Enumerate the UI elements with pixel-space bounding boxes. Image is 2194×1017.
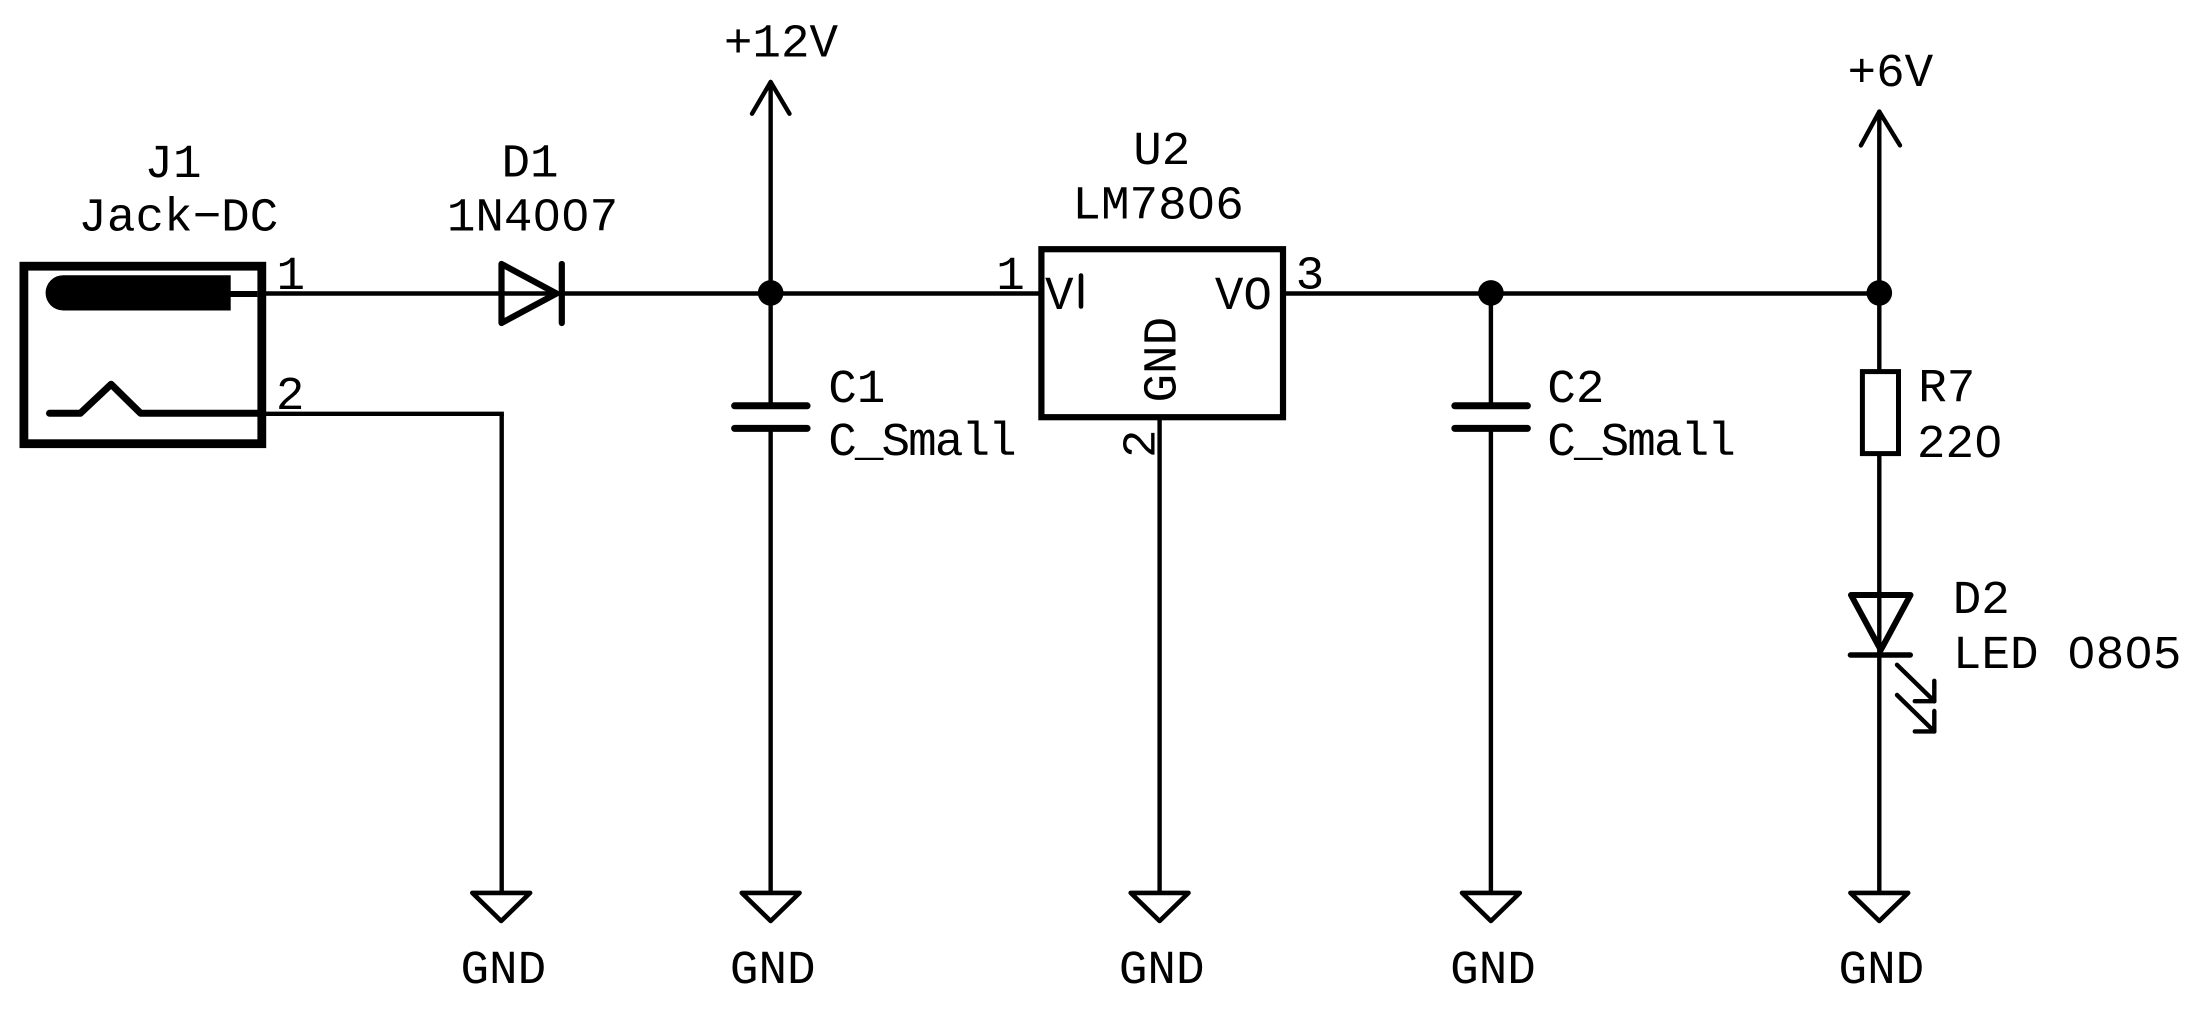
wire net VOUT: U2 VO to +6V node <box>1284 291 1879 295</box>
wire U2 GND pin to GND <box>1157 417 1161 893</box>
svg-text:VO: VO <box>1215 270 1272 324</box>
node junction at +12V/C1 <box>758 280 784 306</box>
svg-text:+6V: +6V <box>1848 47 1934 101</box>
LED D2 <box>1850 595 1910 655</box>
svg-text:C_Small: C_Small <box>828 416 1015 470</box>
svg-text:1N4007: 1N4007 <box>447 191 618 245</box>
wire +6V stem <box>1877 112 1881 294</box>
wire J1 pin2 horizontal <box>262 412 504 416</box>
capacitor C1 plates <box>735 406 808 429</box>
wire node to R7 <box>1877 294 1881 373</box>
svg-text:GND: GND <box>1839 944 1925 998</box>
ground symbol under U2 <box>1131 893 1189 921</box>
J1 center contact zigzag <box>50 384 258 413</box>
ground symbol under J1 pin2 <box>472 893 530 921</box>
svg-text:D1: D1 <box>501 138 558 192</box>
wire C2 top <box>1489 294 1493 407</box>
wire R7 to D2 to GND <box>1877 454 1881 893</box>
svg-text:J1: J1 <box>144 138 201 192</box>
svg-text:U2: U2 <box>1133 125 1190 179</box>
ground symbol under C2 <box>1462 893 1520 921</box>
svg-text:GND: GND <box>460 944 546 998</box>
wire C1 bottom to GND <box>768 428 772 893</box>
node junction at +6V/R7 <box>1867 280 1893 306</box>
svg-text:LM7806: LM7806 <box>1072 180 1243 234</box>
J1 barrel pin <box>46 275 231 310</box>
svg-text:2: 2 <box>1116 429 1170 458</box>
wire C2 bottom to GND <box>1489 428 1493 893</box>
ground symbol under C1 <box>742 893 800 921</box>
capacitor C2 plates <box>1455 406 1528 429</box>
wire C1 top <box>768 294 772 407</box>
wire +12V stem <box>768 82 772 294</box>
wire net VIN: J1 pin1 to U2 VI <box>262 291 1040 295</box>
wire J1 pin2 vertical to GND <box>500 414 504 893</box>
svg-text:C2: C2 <box>1547 363 1604 417</box>
svg-text:2: 2 <box>276 370 305 424</box>
diode D1 <box>502 264 562 323</box>
svg-text:Jack−DC: Jack−DC <box>78 191 278 245</box>
svg-text:V: V <box>1045 270 1074 324</box>
D2 light arrow B <box>1897 695 1934 731</box>
svg-text:GND: GND <box>1450 944 1536 998</box>
svg-text:3: 3 <box>1296 249 1325 303</box>
zero glyph dot covers (match plain KiCad zeros) <box>543 198 2143 655</box>
svg-text:1: 1 <box>277 250 306 304</box>
svg-text:C1: C1 <box>828 363 885 417</box>
svg-text:GND: GND <box>1119 944 1205 998</box>
power symbol +6V arrow <box>1861 112 1900 146</box>
svg-text:GND: GND <box>730 944 816 998</box>
svg-text:GND: GND <box>1137 317 1191 403</box>
ground symbol under D2 <box>1850 893 1908 921</box>
node junction at C2 <box>1478 280 1504 306</box>
connector J1 body <box>24 266 262 444</box>
svg-text:220: 220 <box>1917 418 2003 472</box>
regulator U2 box <box>1041 249 1283 417</box>
svg-text:C_Small: C_Small <box>1547 416 1734 470</box>
resistor R7 body <box>1862 372 1898 454</box>
J1 pin1 stub <box>228 291 257 297</box>
svg-text:1: 1 <box>996 250 1025 304</box>
svg-text:LED 0805: LED 0805 <box>1953 629 2181 683</box>
D2 light arrow A <box>1897 665 1934 701</box>
svg-text:D2: D2 <box>1953 574 2010 628</box>
svg-text:+12V: +12V <box>724 17 839 71</box>
svg-text:R7: R7 <box>1918 362 1975 416</box>
power symbol +12V arrow <box>752 82 790 114</box>
